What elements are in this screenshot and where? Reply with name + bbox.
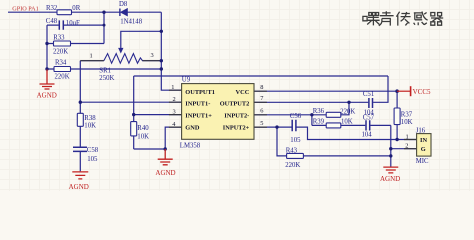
svg-text:R34: R34 bbox=[55, 59, 67, 66]
svg-text:5: 5 bbox=[260, 120, 263, 127]
svg-text:IN: IN bbox=[420, 137, 427, 144]
svg-text:10K: 10K bbox=[137, 133, 149, 140]
svg-text:VCC5: VCC5 bbox=[413, 88, 431, 96]
svg-text:R37: R37 bbox=[401, 112, 413, 119]
svg-text:105: 105 bbox=[290, 137, 301, 144]
svg-text:AGND: AGND bbox=[37, 91, 57, 99]
svg-text:R32: R32 bbox=[46, 5, 58, 12]
svg-text:3: 3 bbox=[151, 52, 154, 59]
svg-text:1N4148: 1N4148 bbox=[120, 19, 143, 26]
svg-text:INPUT1+: INPUT1+ bbox=[185, 113, 212, 120]
svg-text:104: 104 bbox=[362, 131, 373, 138]
svg-text:C48: C48 bbox=[46, 18, 58, 25]
svg-text:2: 2 bbox=[173, 96, 176, 103]
svg-text:AGND: AGND bbox=[380, 175, 400, 183]
svg-text:0R: 0R bbox=[72, 5, 80, 12]
svg-text:R38: R38 bbox=[84, 115, 96, 122]
svg-text:2: 2 bbox=[405, 142, 408, 149]
svg-text:C58: C58 bbox=[87, 147, 99, 154]
svg-text:R33: R33 bbox=[53, 34, 65, 41]
svg-text:R40: R40 bbox=[137, 125, 149, 132]
svg-text:R39: R39 bbox=[313, 118, 325, 125]
svg-text:INPUT1-: INPUT1- bbox=[185, 100, 210, 107]
svg-text:U9: U9 bbox=[182, 77, 191, 84]
svg-text:C57: C57 bbox=[363, 115, 375, 122]
svg-text:1: 1 bbox=[171, 84, 174, 91]
svg-text:OUTPUT1: OUTPUT1 bbox=[185, 89, 215, 96]
svg-text:10K: 10K bbox=[341, 118, 353, 125]
svg-text:J16: J16 bbox=[416, 127, 426, 134]
svg-text:C56: C56 bbox=[290, 113, 302, 120]
svg-text:10uF: 10uF bbox=[66, 20, 80, 27]
svg-text:105: 105 bbox=[87, 156, 98, 163]
svg-text:INPUT2-: INPUT2- bbox=[224, 113, 249, 120]
svg-text:8: 8 bbox=[260, 84, 263, 91]
svg-text:1: 1 bbox=[90, 52, 93, 59]
svg-text:250K: 250K bbox=[99, 75, 114, 82]
svg-text:AGND: AGND bbox=[155, 169, 175, 177]
svg-text:INPUT2+: INPUT2+ bbox=[223, 125, 250, 132]
svg-text:1: 1 bbox=[406, 134, 409, 141]
svg-text:LM358: LM358 bbox=[180, 142, 201, 149]
svg-text:AGND: AGND bbox=[69, 183, 89, 191]
svg-text:220K: 220K bbox=[285, 162, 300, 169]
svg-text:GPIO PA1: GPIO PA1 bbox=[12, 5, 38, 12]
svg-text:220K: 220K bbox=[55, 74, 70, 81]
svg-text:220K: 220K bbox=[340, 108, 355, 115]
svg-text:3: 3 bbox=[173, 108, 176, 115]
svg-text:G: G bbox=[421, 146, 426, 153]
svg-text:SR1: SR1 bbox=[99, 67, 111, 74]
svg-text:220K: 220K bbox=[53, 49, 68, 56]
svg-text:OUTPUT2: OUTPUT2 bbox=[220, 100, 250, 107]
svg-text:MIC: MIC bbox=[416, 158, 429, 165]
svg-text:R36: R36 bbox=[313, 108, 325, 115]
svg-text:10K: 10K bbox=[84, 123, 96, 130]
svg-text:7: 7 bbox=[260, 95, 264, 102]
svg-text:GND: GND bbox=[185, 125, 200, 132]
svg-text:D8: D8 bbox=[119, 1, 128, 8]
svg-text:6: 6 bbox=[260, 108, 263, 115]
svg-text:10K: 10K bbox=[401, 119, 413, 126]
svg-text:C51: C51 bbox=[363, 91, 374, 98]
svg-text:VCC: VCC bbox=[236, 89, 250, 96]
svg-text:R43: R43 bbox=[286, 147, 298, 154]
